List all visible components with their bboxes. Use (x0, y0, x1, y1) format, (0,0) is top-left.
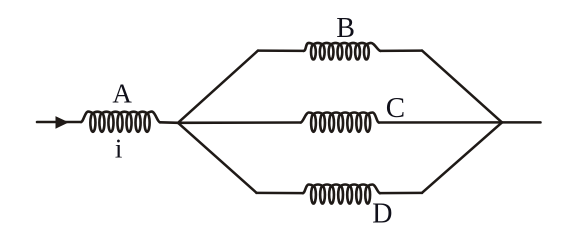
svg-text:C: C (386, 92, 405, 124)
svg-text:i: i (115, 133, 123, 163)
svg-text:D: D (372, 198, 392, 229)
svg-text:A: A (112, 79, 132, 109)
svg-text:B: B (336, 13, 355, 44)
